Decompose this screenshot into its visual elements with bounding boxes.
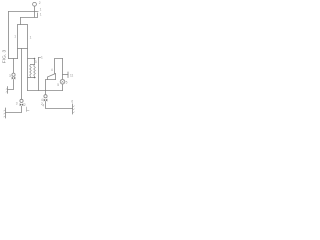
gauge stub wire: [34, 6, 36, 11]
junction dot: [34, 77, 36, 79]
wire branch to valve V1: [13, 59, 15, 74]
svg-text:1: 1: [40, 13, 42, 17]
blower B1 (circle with cross): [60, 79, 65, 84]
stray corner mark near bottom: [27, 107, 30, 112]
wire below valve V1: [8, 80, 14, 90]
component box 14 (small meter box): [21, 12, 38, 18]
wire below valve V3: [6, 106, 22, 112]
tick at pipe top: [39, 57, 41, 59]
wire vessel outlet middle (long drop): [21, 49, 23, 100]
reference numerals (tiny specks): [9, 1, 74, 108]
svg-text:3: 3: [35, 60, 37, 64]
junction dot top: [34, 58, 36, 60]
vessel T1 (tall rectangle): [18, 25, 28, 49]
valve V1 actuator circle: [12, 73, 15, 76]
svg-text:4: 4: [51, 68, 53, 72]
svg-text:6: 6: [71, 100, 73, 104]
valve V2 body bowtie: [44, 99, 48, 102]
terminal bar left-mid: [7, 87, 9, 94]
svg-text:5: 5: [66, 81, 68, 85]
coil bottom header: [28, 77, 36, 79]
coil L1 (left zigzag): [30, 65, 32, 78]
pump W1 (wedge symbol): [48, 74, 56, 80]
wire long vertical pipe: [38, 58, 40, 91]
valve V1 body bowtie: [12, 77, 16, 80]
gauge P1 (circle): [33, 2, 37, 6]
wire drop from header to valve V2: [45, 91, 47, 95]
wire horizontal left manifold: [9, 58, 18, 60]
svg-text:2: 2: [24, 103, 26, 107]
svg-text:2: 2: [39, 1, 41, 5]
terminal bar bottom-left: [5, 108, 7, 118]
wire vessel outlet right (continuous drop): [27, 49, 29, 91]
wire blower outlet: [62, 84, 64, 91]
wire branch to coils: [28, 59, 35, 65]
heater coil top header: [31, 64, 35, 66]
wire left return (long vertical): [8, 12, 10, 59]
coil L2 (right zigzag): [34, 65, 36, 78]
svg-text:11: 11: [70, 74, 74, 78]
wire inlet down into vessel: [20, 18, 22, 25]
svg-text:1: 1: [41, 55, 43, 59]
valve V3 body bowtie: [20, 103, 24, 106]
valve V3 actuator circle: [20, 99, 23, 102]
svg-text:FIG. 3: FIG. 3: [1, 50, 7, 64]
svg-text:1: 1: [14, 35, 16, 39]
svg-text:3: 3: [16, 102, 18, 106]
wire wedge top riser: [55, 59, 63, 74]
vent branch wire: [63, 74, 69, 76]
wire below valve V2 to right terminal: [46, 102, 73, 109]
wire vessel outlet left: [17, 49, 19, 59]
svg-text:1: 1: [30, 35, 32, 39]
svg-text:3: 3: [9, 74, 11, 78]
terminal bar vent: [67, 72, 69, 78]
terminal bar bottom-right: [72, 104, 74, 114]
hatch ticks on left-bottom terminal: [4, 110, 6, 117]
wire wedge outlet to header: [46, 80, 56, 91]
wire right down to blower: [62, 59, 64, 80]
wire bottom header: [28, 90, 63, 92]
valve V2 actuator circle: [44, 95, 47, 98]
svg-text:5: 5: [57, 83, 59, 87]
wire main top feed: [9, 11, 39, 13]
svg-text:1: 1: [40, 7, 42, 11]
hatch ticks on right-bottom terminal: [73, 106, 75, 113]
hatch ticks on left-mid terminal: [6, 88, 7, 92]
svg-text:4: 4: [42, 103, 44, 107]
